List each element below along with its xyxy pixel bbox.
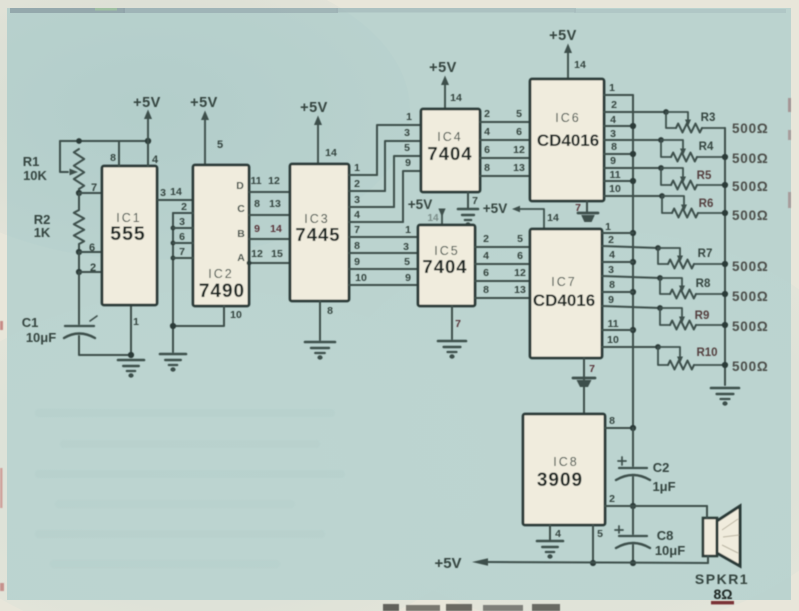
svg-text:500Ω: 500Ω [732,359,769,374]
svg-text:7: 7 [354,224,360,236]
wire IC4 pin 7 stub [467,192,469,208]
SPKR1 red underline [711,601,734,604]
wire node to IC1 pin 2 [79,271,102,273]
junction bus y=233 [630,230,636,236]
wire IC1 pin 8 stub [118,141,120,166]
node pin2/C1 [76,269,82,275]
wire stair IC3-1 to IC4-1 [377,125,421,175]
wire IC7 pin 11 to bus [602,329,633,331]
svg-text:2: 2 [608,234,614,246]
svg-text:4: 4 [483,250,489,262]
speaker SPKR1 body [703,506,740,566]
svg-text:13: 13 [514,284,526,296]
capacitor C2 bottom plate [616,475,650,480]
svg-text:1: 1 [405,224,411,236]
svg-text:4: 4 [610,114,616,126]
svg-text:12: 12 [513,144,525,156]
svg-text:3: 3 [610,128,616,140]
svg-text:8: 8 [254,198,260,210]
wire IC4 pin 2 to IC6 pin 5 [480,121,530,123]
capacitor C8 bottom plate [616,543,650,548]
wire IC1 pin 1 down [130,305,132,357]
node R1/R2/pin7 [76,190,82,196]
ground below IC4 [458,209,478,227]
svg-text:+5V: +5V [133,95,161,111]
wire IC6 pin 9 to R5 [604,167,661,169]
svg-text:R6: R6 [699,198,714,210]
svg-text:11: 11 [609,169,620,181]
svg-text:C1: C1 [22,315,39,330]
wire speaker top [706,506,708,518]
wire C to IC3 [249,214,290,216]
svg-text:8: 8 [110,152,116,164]
svg-text:8: 8 [327,305,333,317]
svg-text:6: 6 [89,242,95,254]
wire IC3 pin 10 out [349,284,418,286]
wire IC7 pin 8 to bus [602,291,633,293]
node R2/pin6 [76,249,82,255]
svg-text:500Ω: 500Ω [732,179,769,194]
wire IC8 pin 4 stub [549,525,551,540]
svg-text:13: 13 [513,162,525,174]
svg-text:7490: 7490 [199,281,245,302]
svg-text:3: 3 [354,194,360,206]
svg-text:500Ω: 500Ω [732,289,769,304]
wire IC7 pin 3 to R8 [602,276,660,278]
wire IC2 pin 6 stub [173,242,193,244]
oscillator IC8 3909 [523,414,605,525]
wire C2 to pin2 node [632,477,634,506]
analog switch IC6 CD4016 [530,79,604,201]
svg-text:555: 555 [110,223,146,245]
svg-text:A: A [237,252,245,264]
wire IC6 pin 2 to R3 [604,111,666,113]
ground below IC1 [118,360,144,378]
wire IC3 pin 2 out [349,190,385,192]
IC7 +5V left arrow [512,206,520,212]
junction pin2/C2/speaker [630,503,636,509]
wire +5V rail above IC1 [60,140,148,142]
capacitor C8 plus sign [615,529,623,531]
svg-text:15: 15 [271,248,283,260]
svg-text:7: 7 [179,246,185,258]
svg-text:14: 14 [547,212,559,224]
svg-text:9: 9 [354,256,360,268]
svg-text:3909: 3909 [537,470,583,491]
wire IC3 pin 8 down [319,301,321,340]
junction reset bus pin7 [171,256,176,261]
power +5V arrow above IC4 [429,60,457,109]
wire stair IC3-4 to IC4-9 [403,171,421,222]
wire bus down to C2 [632,428,634,466]
power +5V arrow above IC2 [190,95,218,165]
junction output bus y=294 [722,291,728,297]
wire resistor output bus [724,128,726,385]
svg-text:12: 12 [268,175,280,187]
wire node down to C8 [632,506,634,534]
svg-text:11: 11 [250,175,261,187]
ground below IC2 [160,354,186,372]
junction blob A wire [247,261,252,266]
svg-text:10μF: 10μF [26,330,56,345]
svg-text:7404: 7404 [427,143,472,164]
analog switch IC7 CD4016 [530,229,602,358]
svg-text:10μF: 10μF [655,543,685,558]
junction bus y=262 [630,259,636,265]
wire IC8 pin 2 to speaker [605,505,707,507]
svg-text:3: 3 [403,241,409,253]
svg-text:1: 1 [609,82,615,94]
svg-text:6: 6 [517,250,523,262]
junction output bus y=185 [722,182,728,188]
wire IC5 pin 8 to IC7 pin 13 [475,297,530,299]
decoder IC3 7445 [290,164,349,301]
resistor R10 500&#937; (rheostat) [655,344,725,369]
svg-text:IC6: IC6 [555,111,580,125]
wire IC7 pin 7 stub to IC8 top [583,358,585,413]
junction bus/pin8/C2 [630,425,636,431]
wire IC4 pin 8 to IC6 pin 13 [480,175,530,177]
svg-text:2: 2 [483,233,489,245]
capacitor C1 bottom plate [64,334,95,339]
wire node down to C1 [78,272,80,324]
resistor R2 zigzag [74,210,84,244]
svg-text:5: 5 [217,139,223,151]
svg-text:8: 8 [609,415,615,427]
junction output bus y=264 [722,261,728,267]
svg-text:3: 3 [608,264,614,276]
svg-text:D: D [236,180,244,192]
svg-text:6: 6 [484,144,490,156]
svg-text:9: 9 [405,272,411,284]
caption remnant bottom [383,604,560,611]
junction output bus y=365 [722,362,728,368]
wire IC2 pin 7 stub [173,257,193,259]
capacitor C8 top plate [619,535,647,537]
wire IC2 pin 3 stub [173,227,193,229]
svg-text:14: 14 [574,59,586,71]
junction reset bus pin6 [171,241,176,246]
wire IC7 pin 4 to bus [602,261,633,263]
wire IC6 pin 4 to bus [604,125,633,127]
svg-text:5: 5 [517,233,523,245]
svg-text:500Ω: 500Ω [732,259,769,274]
junction bus y=292 [630,289,636,295]
svg-text:2: 2 [611,99,617,111]
svg-text:3: 3 [404,127,410,139]
wire IC6 pin 10 to R6 [604,195,662,197]
junction rail/pin5 [590,560,596,566]
svg-text:12: 12 [251,248,263,260]
wire IC5 pin 7 stub [451,306,453,339]
svg-text:7404: 7404 [422,256,467,277]
svg-text:12: 12 [514,267,526,279]
svg-text:5: 5 [597,528,603,540]
svg-text:4: 4 [609,249,615,261]
svg-text:1: 1 [133,316,139,328]
junction dot pin4 corner [145,138,151,144]
left margin bleed marks [0,321,4,591]
svg-text:CD4016: CD4016 [533,291,595,310]
svg-text:4: 4 [152,154,159,166]
resistor R7 500&#937; (rheostat) [655,245,725,268]
svg-text:8Ω: 8Ω [713,586,732,602]
svg-text:3: 3 [179,216,185,228]
wire IC2 reset bus vertical [172,213,174,352]
power +5V arrow above IC1 [133,95,161,141]
wire bottom +5V rail [486,562,708,563]
svg-text:4: 4 [555,528,561,540]
wire IC3 pin 7 out [349,236,418,238]
svg-text:7: 7 [455,318,461,330]
svg-text:4: 4 [484,126,490,138]
svg-text:R4: R4 [699,141,714,153]
resistor R3 500&#937; (rheostat) [663,109,725,132]
op IC1 555 timer [102,166,157,305]
wire IC7 pin 9 to R9 [602,306,660,308]
junction bus y=181 [630,178,636,184]
junction bus y=126 [630,123,636,129]
wire IC5 pin 2 to IC7 pin 5 [475,246,530,248]
svg-text:9: 9 [608,294,614,306]
svg-text:14: 14 [270,223,282,235]
wire IC6 pin 7 stub [586,201,588,212]
svg-text:+5V: +5V [434,555,461,572]
svg-text:1: 1 [605,221,611,233]
svg-text:500Ω: 500Ω [732,151,769,166]
wire IC3 pin 1 out [349,174,377,176]
svg-text:7: 7 [91,182,97,194]
svg-text:14: 14 [427,213,439,224]
wire IC2 pin 10 down-left [173,306,224,326]
junction dot R1 top [76,138,82,144]
junction rail/C8 [630,560,636,566]
inverter IC4 7404 [421,109,480,192]
svg-text:C8: C8 [657,528,674,543]
svg-text:8: 8 [483,284,489,296]
capacitor C2 top plate [619,467,647,469]
svg-text:2: 2 [354,178,360,190]
capacitor C1 top plate [65,325,94,327]
svg-text:10: 10 [609,183,621,195]
ground below IC5 [438,341,466,359]
svg-text:+5V: +5V [300,100,328,116]
svg-text:+5V: +5V [408,197,432,212]
ground below IC6 [578,213,598,222]
wire IC1 pin 3 to IC2 pin 14 [158,199,193,201]
ground below IC3 [305,342,335,360]
svg-text:10: 10 [607,334,619,346]
svg-text:IC8: IC8 [553,455,578,469]
wire IC6 pin 1 to bus [604,94,633,96]
svg-text:8: 8 [354,240,360,252]
wire IC6 pin 3 to R4 [604,139,661,141]
svg-text:5: 5 [516,108,522,120]
svg-text:6: 6 [179,231,185,243]
wire B to IC3 [249,238,290,240]
svg-text:14: 14 [325,147,337,159]
svg-text:8: 8 [484,162,490,174]
resistor R1 zigzag [74,149,84,189]
ground below IC7 [573,378,595,387]
svg-text:6: 6 [483,267,489,279]
svg-text:+5V: +5V [549,28,577,44]
R1 wiper arrow [70,169,79,176]
svg-text:+5V: +5V [483,201,507,216]
svg-text:R9: R9 [695,310,710,322]
svg-text:R3: R3 [701,112,716,124]
svg-text:5: 5 [404,142,410,154]
junction output bus y=213 [722,210,728,216]
ground below IC8 pin 4 [537,541,563,559]
junction bus y=154 [630,151,636,157]
svg-text:14: 14 [170,186,182,198]
resistor R6 500&#937; (rheostat) [659,193,725,217]
svg-text:9: 9 [405,157,411,169]
wire node to IC1 pin 7 [79,192,102,194]
svg-text:7: 7 [589,363,595,375]
wire node to IC1 pin 6 [79,251,102,253]
svg-text:+5V: +5V [429,60,457,76]
wire IC7 pin 2 to R7 [602,246,658,248]
capacitor C2 plus sign [618,460,626,462]
svg-text:2: 2 [181,201,187,213]
wire D to IC3 [249,191,290,193]
wire speaker bottom [707,556,709,563]
svg-text:4: 4 [354,209,360,221]
resistor R4 500&#937; (rheostat) [658,137,725,161]
svg-text:500Ω: 500Ω [732,121,769,136]
junction reset bus pin3 [171,226,176,231]
wire R2 bottom chain [78,244,80,252]
C1 polarity tick [90,316,97,321]
wire IC6 pin 11 to bus [604,180,633,182]
resistor R5 500&#937; (rheostat) [658,165,725,189]
wire IC7 pin 1 to bus [602,232,633,234]
right margin bleed marks [788,98,791,208]
counter IC2 7490 [193,165,249,306]
wire node to R2 top [78,193,80,210]
wire IC1 pin 4 stub [147,141,149,166]
wire IC3 pin 9 out [349,268,418,270]
resistor R9 500&#937; (rheostat) [657,305,725,329]
junction output bus y=157 [722,154,728,160]
svg-text:11: 11 [607,318,618,330]
svg-text:10: 10 [355,272,367,284]
wire IC4 pin 4 to IC6 pin 6 [480,139,530,141]
svg-text:9: 9 [610,155,616,167]
svg-text:2: 2 [90,262,96,274]
svg-text:SPKR1: SPKR1 [695,571,749,587]
svg-text:R8: R8 [696,278,711,290]
wire C8 to bottom rail [632,545,634,563]
svg-text:10: 10 [230,309,242,321]
svg-text:R7: R7 [698,248,713,260]
svg-text:500Ω: 500Ω [732,208,769,223]
wire IC6 pin 8 to bus [604,153,633,155]
wire C1 bottom to ground rail [79,336,131,355]
svg-text:7445: 7445 [295,224,340,245]
svg-text:6: 6 [516,126,522,138]
IC5 +5V down arrow [438,209,445,218]
svg-text:IC4: IC4 [437,130,462,144]
svg-text:1μF: 1μF [652,479,675,494]
wire IC5 pin 6 to IC7 pin 12 [475,280,530,282]
power +5V arrow above IC3 [300,100,328,164]
resistor R8 500&#937; (rheostat) [657,275,725,298]
+5V left arrowhead [472,558,488,566]
svg-text:8: 8 [611,141,617,153]
svg-text:B: B [237,228,245,240]
R1 wiper loop [60,141,68,172]
svg-text:1K: 1K [34,225,51,240]
svg-text:R10: R10 [696,347,717,359]
svg-text:2: 2 [609,493,615,505]
junction output bus y=325 [722,322,728,328]
svg-text:13: 13 [269,198,281,210]
svg-text:R1: R1 [23,154,40,169]
svg-text:5: 5 [404,256,410,268]
svg-text:9: 9 [254,223,260,235]
svg-text:14: 14 [450,92,462,104]
power +5V arrow above IC6 [549,28,577,79]
svg-text:3: 3 [160,187,166,199]
svg-text:IC2: IC2 [208,267,233,281]
wire IC8 pin 8 to bus [605,427,633,429]
wire switch-input bus vertical [632,95,634,428]
wire R1 bottom to node [78,189,80,193]
wire A to IC3 [249,262,290,264]
svg-text:C: C [237,203,245,215]
wire IC7 pin 10 to R10 [602,346,658,348]
svg-text:+5V: +5V [190,95,218,111]
svg-text:C2: C2 [653,460,670,475]
wire stair IC3-3 to IC4-5 [394,156,421,207]
svg-text:1: 1 [354,162,360,174]
svg-text:1: 1 [406,111,412,123]
junction reset bus pin10 [170,323,176,329]
inverter IC5 7404 [418,225,475,306]
svg-text:7: 7 [472,195,478,207]
wire IC8 pin 5 down to rail [592,525,594,563]
svg-text:IC7: IC7 [551,275,576,289]
wire pin6 node to pin2 node [78,252,80,272]
wire IC2 pin 2 stub [173,212,193,214]
svg-text:8: 8 [609,279,615,291]
wire IC3 pin 8 out [349,252,418,254]
wire stair IC3-2 to IC4-3 [385,141,421,191]
wire IC3 pin 3 out [349,206,394,208]
wire IC4 pin 6 to IC6 pin 12 [480,157,530,159]
wire IC3 pin 4 out [349,221,403,223]
wire IC5 pin 4 to IC7 pin 6 [475,263,530,265]
svg-text:CD4016: CD4016 [537,131,599,150]
svg-text:10K: 10K [23,168,47,183]
junction bus y=330 [630,327,636,333]
svg-text:500Ω: 500Ω [732,319,769,334]
ground below resistor bus [711,388,739,406]
svg-text:R5: R5 [697,170,712,182]
junction C1/pin1 ground node [128,352,134,358]
svg-text:2: 2 [484,108,490,120]
